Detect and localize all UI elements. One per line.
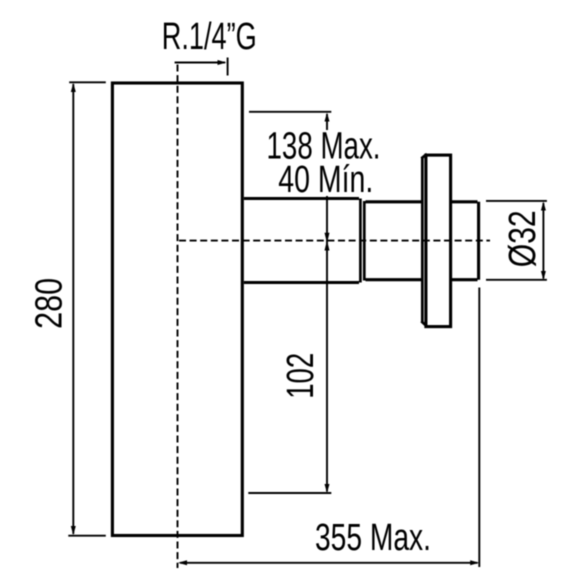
svg-text:355 Max.: 355 Max.	[315, 517, 431, 559]
svg-text:Ø32: Ø32	[502, 210, 544, 267]
svg-text:R.1/4”G: R.1/4”G	[162, 16, 257, 58]
svg-text:102: 102	[280, 353, 322, 399]
svg-text:40 Mín.: 40 Mín.	[278, 159, 373, 201]
svg-text:280: 280	[28, 278, 70, 329]
